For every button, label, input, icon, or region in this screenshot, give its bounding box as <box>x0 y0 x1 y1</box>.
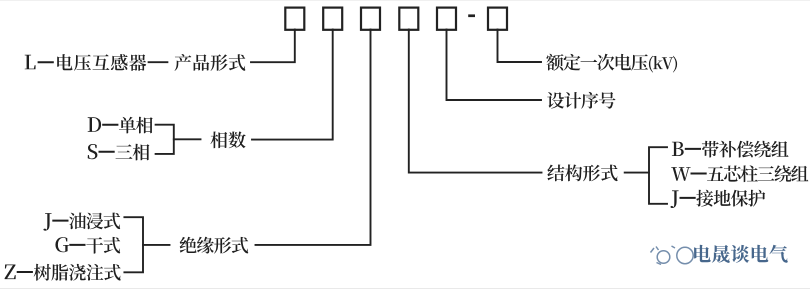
designation box 3 <box>361 8 380 30</box>
label D-danxiang <box>88 117 153 134</box>
wire box3 to jueyuan-xingshi <box>256 30 371 245</box>
label chanpin-xingshi <box>175 54 246 71</box>
wire bracket to xiangshu <box>174 138 201 140</box>
top border <box>0 0 810 1</box>
hyphen between box 5 and box 6 <box>468 14 475 17</box>
wire box4 to jiegou-xingshi <box>409 30 542 173</box>
label Z-shuzhijiaozhushi <box>5 264 121 281</box>
label G-ganshi <box>55 237 120 254</box>
designation box 5 <box>437 8 456 30</box>
bracket jueyuan (J/G/Z rows) <box>124 217 143 272</box>
watermark icon (cloud circles) <box>651 246 694 265</box>
label jueyuan-xingshi <box>180 237 249 254</box>
wire jiegou-xingshi to bracket <box>625 172 649 174</box>
label xiangshu <box>210 132 245 149</box>
designation box 2 <box>323 8 342 30</box>
label J-jiedi-baohu <box>670 190 765 208</box>
designation box 6 <box>488 8 507 30</box>
label B-dai-buchang <box>672 141 789 158</box>
wire bracket to jueyuan-xingshi <box>143 244 170 246</box>
label sheji-xuhao <box>547 92 615 109</box>
label L-dianya-huganqi <box>25 54 147 71</box>
label W-wuxinzhu <box>671 165 808 182</box>
bottom border <box>0 288 810 289</box>
wire box1 to chanpin-xingshi <box>251 30 295 63</box>
designation box 1 <box>285 8 304 30</box>
wire box2 to xiangshu <box>252 30 333 140</box>
designation box 4 <box>399 8 418 30</box>
label J-youjinshi <box>43 213 120 231</box>
label jiegou-xingshi <box>547 164 617 181</box>
bracket jiegou (B/W/J rows) <box>649 147 667 204</box>
label S-sanxiang <box>88 144 150 161</box>
wire box6 to eding-dianya <box>498 30 542 63</box>
wire box5 to sheji-xuhao <box>447 30 542 101</box>
dash between huganqi and chanpin-xingshi <box>149 61 168 63</box>
watermark text dianshengtandianqi <box>694 245 788 263</box>
label eding-yici-dianya <box>546 54 677 73</box>
bracket xiangshu (D/S rows) <box>156 125 174 154</box>
